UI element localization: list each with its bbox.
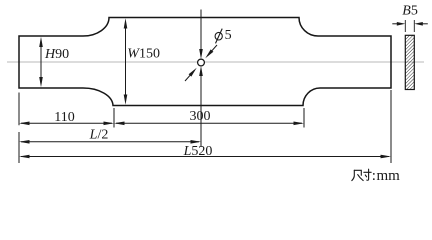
- svg-text:B5: B5: [402, 4, 418, 19]
- svg-text:300: 300: [190, 109, 211, 124]
- svg-text:5: 5: [225, 28, 232, 43]
- svg-text:mm: mm: [377, 168, 401, 184]
- svg-text::: :: [372, 168, 376, 184]
- svg-text:L/2: L/2: [89, 128, 109, 143]
- svg-text:H90: H90: [44, 47, 69, 62]
- svg-text:L520: L520: [183, 144, 213, 159]
- svg-text:W150: W150: [127, 47, 160, 62]
- svg-text:110: 110: [54, 110, 74, 125]
